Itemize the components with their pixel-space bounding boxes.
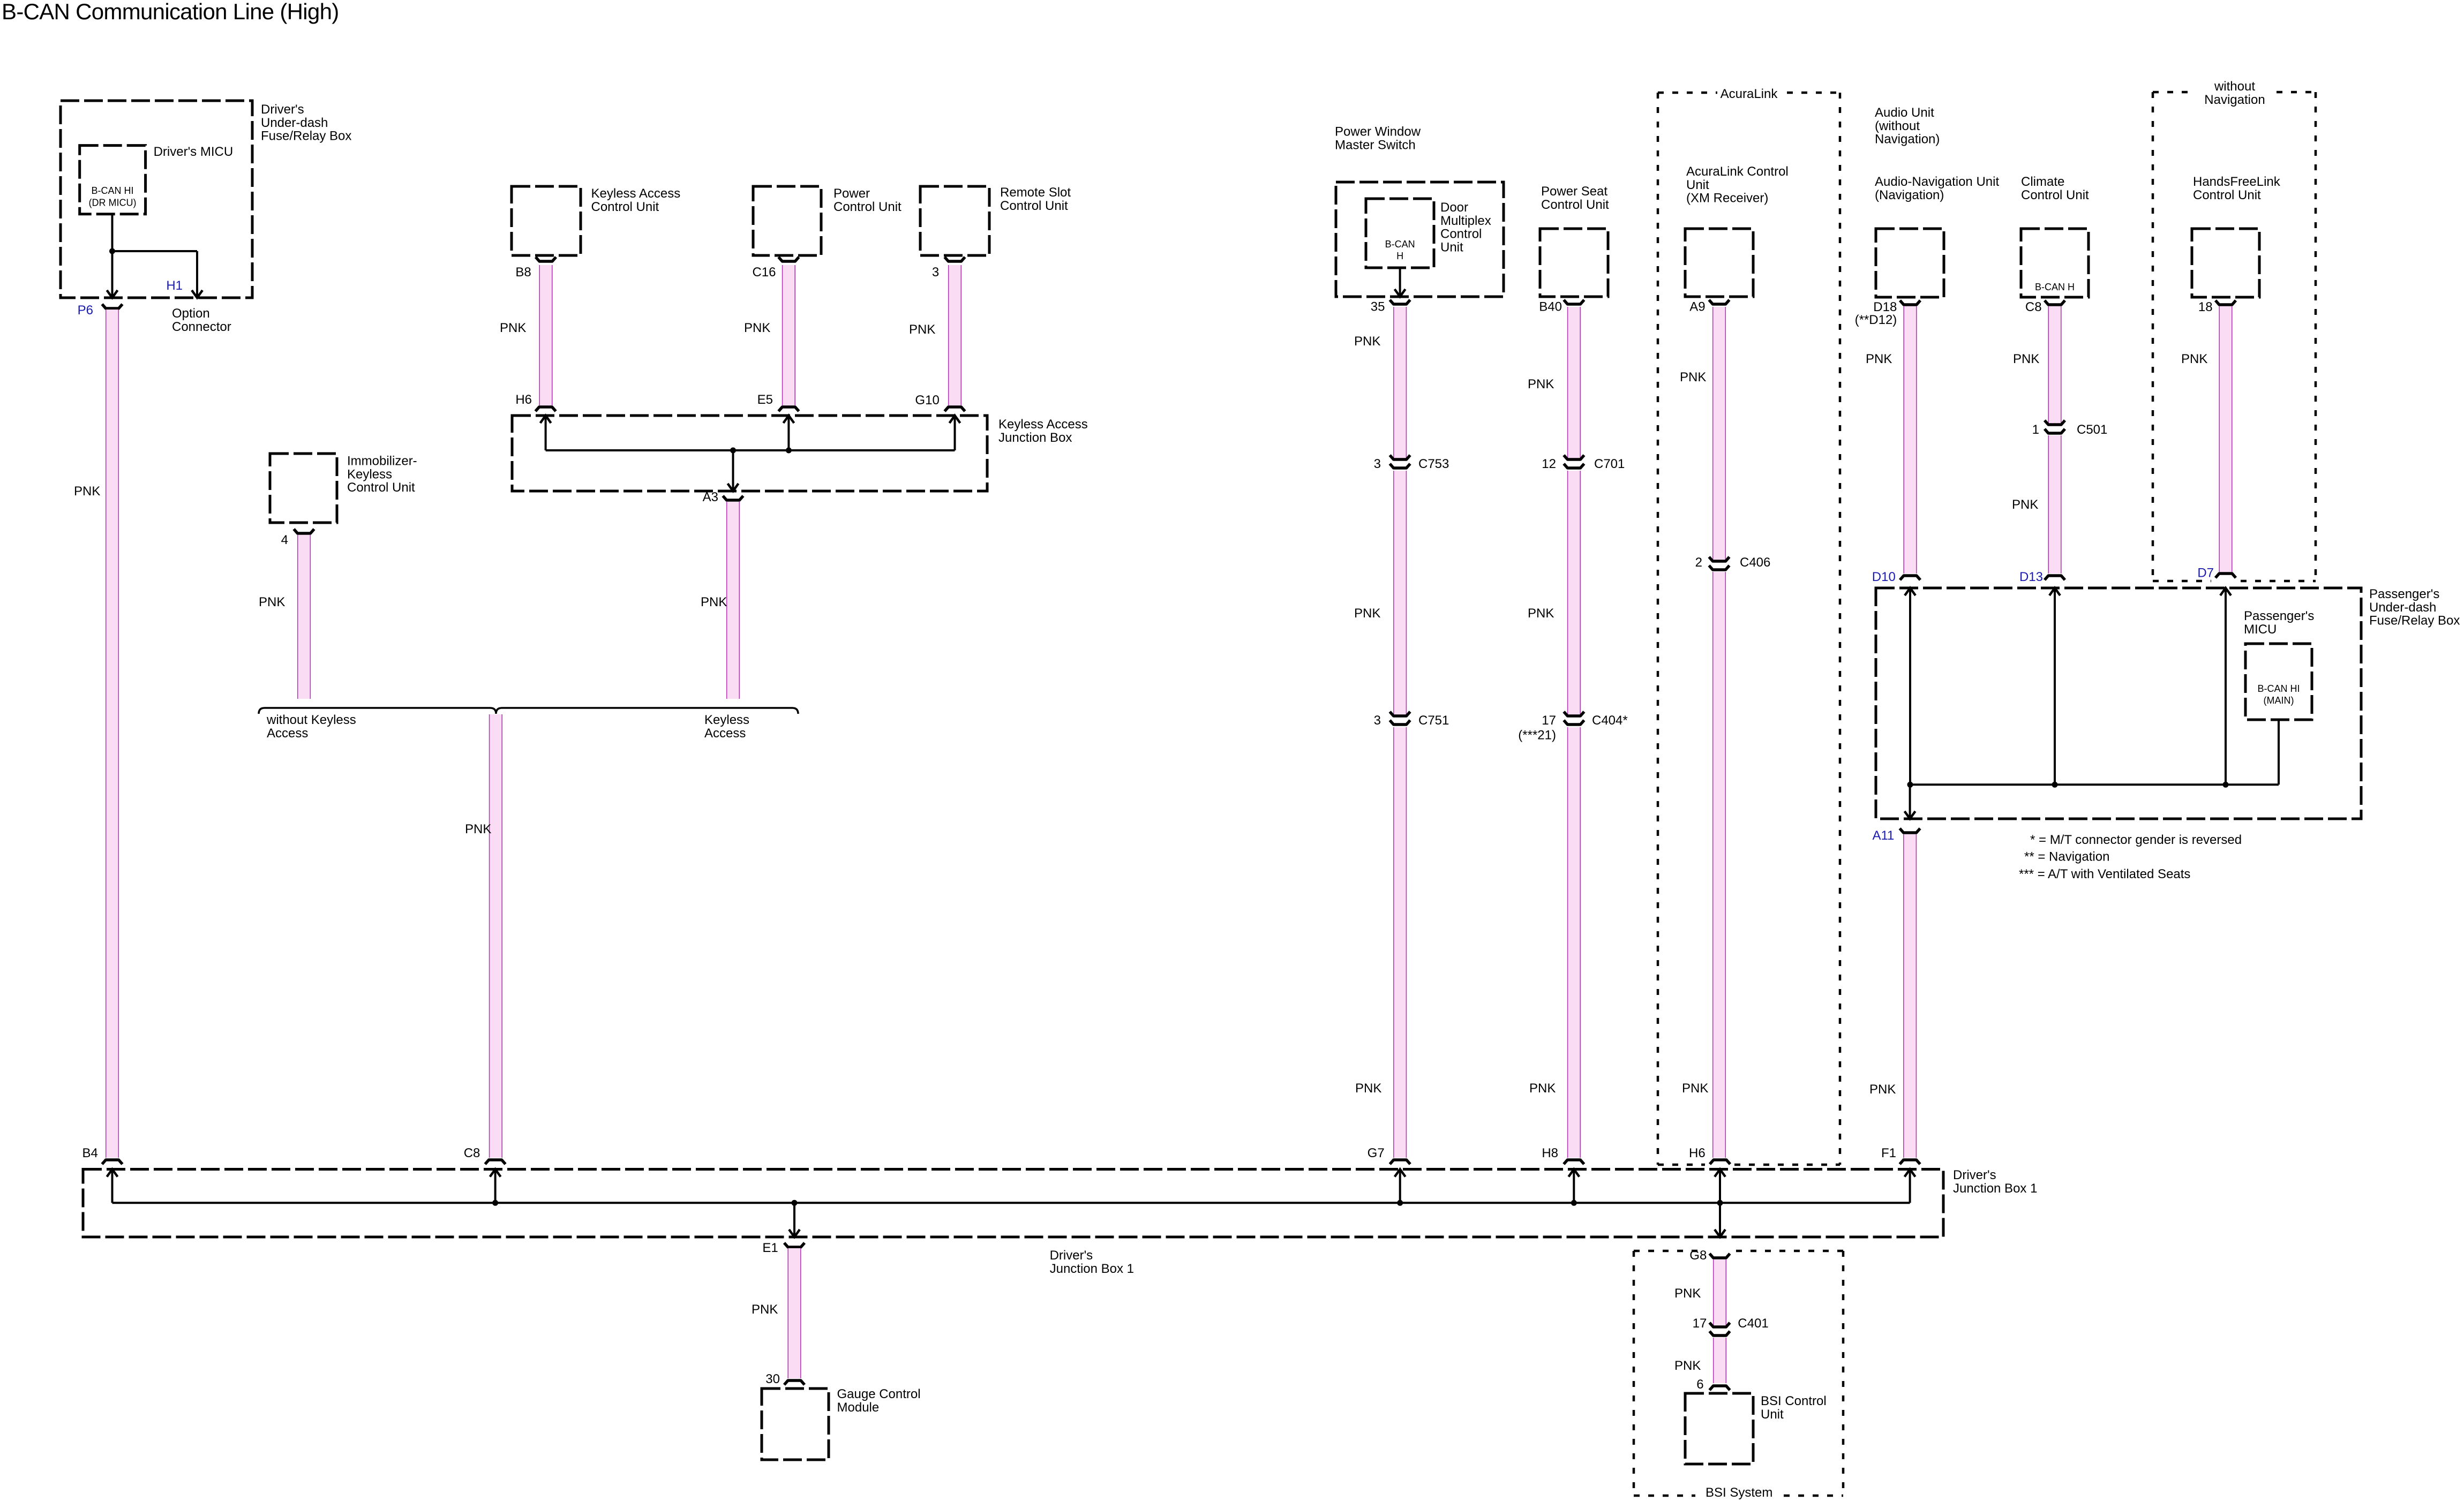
box Power Window Master Switch xyxy=(1336,182,1504,297)
svg-text:C16: C16 xyxy=(752,265,776,280)
label 2 C406 xyxy=(1695,555,1702,570)
wire PNK merged to C8 xyxy=(489,714,502,1158)
svg-text:PNK: PNK xyxy=(1528,377,1554,391)
label G8 xyxy=(1689,1248,1707,1263)
label D13 xyxy=(2019,570,2043,584)
wire PNK B8 to H6 xyxy=(539,265,553,405)
arrow into H6 keyless xyxy=(540,416,551,450)
label Power Window Master Switch xyxy=(1335,125,1421,153)
svg-text:PNK: PNK xyxy=(1354,334,1380,349)
box Keyless Access Control Unit xyxy=(512,186,581,255)
label 17 C404 xyxy=(1542,713,1556,728)
connector D18 xyxy=(1900,300,1920,305)
svg-text:A11: A11 xyxy=(1872,828,1894,843)
arrow into H1 xyxy=(192,251,202,298)
label PNK wire E1 xyxy=(752,1302,778,1317)
label B40 xyxy=(1539,300,1562,314)
junction node A3 bus xyxy=(730,448,736,454)
wire PNK D18 to D10 xyxy=(1904,306,1917,574)
label PNK wire 35 lower xyxy=(1355,1081,1381,1096)
label PNK wire 35 middle xyxy=(1354,606,1380,621)
svg-text:H8: H8 xyxy=(1542,1146,1558,1160)
label Immobilizer-Keyless Control Unit xyxy=(347,454,417,495)
label D10 xyxy=(1872,570,1896,584)
connector C8 junction box 1 xyxy=(485,1160,506,1164)
note asterisk legend xyxy=(2030,833,2242,847)
box Keyless Access Junction Box xyxy=(512,416,987,491)
label PNK wire 35 upper xyxy=(1354,334,1380,349)
label Gauge Control Module xyxy=(837,1387,921,1415)
connector G7 xyxy=(1390,1160,1410,1164)
junction node passenger D7 xyxy=(2223,782,2229,788)
svg-text:PNK: PNK xyxy=(74,484,100,499)
label PNK wire B8 xyxy=(500,321,526,335)
svg-text:3: 3 xyxy=(932,265,939,280)
svg-text:C501: C501 xyxy=(2077,422,2107,437)
label H6 keyless junction xyxy=(515,393,532,407)
label PNK wire B40 upper xyxy=(1528,377,1554,391)
svg-text:PNK: PNK xyxy=(259,595,285,609)
connector 3 Remote Slot xyxy=(945,257,965,261)
label Driver's Junction Box 1 right xyxy=(1953,1168,2037,1196)
label Climate Control Unit xyxy=(2021,175,2089,202)
label B4 xyxy=(82,1146,97,1160)
label BSI Control Unit xyxy=(1761,1394,1827,1422)
svg-text:(**D12): (**D12) xyxy=(1855,313,1897,327)
label C16 xyxy=(752,265,776,280)
label without Navigation region xyxy=(2204,79,2265,107)
svg-text:Remote SlotControl Unit: Remote SlotControl Unit xyxy=(1000,185,1071,213)
label Driver's Junction Box 1 bottom xyxy=(1050,1248,1134,1276)
connector 35 xyxy=(1390,300,1410,304)
label PNK wire G8 upper xyxy=(1674,1286,1701,1301)
box Driver's Under-dash Fuse/Relay Box xyxy=(61,101,252,298)
connector G10 xyxy=(945,407,965,411)
arrow into G10 xyxy=(950,416,960,450)
label C404* xyxy=(1592,713,1628,728)
box Passenger's MICU xyxy=(2245,644,2312,720)
svg-text:17: 17 xyxy=(1693,1316,1707,1331)
svg-text:A3: A3 xyxy=(703,490,718,504)
label Power Control Unit xyxy=(833,186,902,214)
wire PNK A11 to F1 xyxy=(1903,834,1917,1158)
svg-text:F1: F1 xyxy=(1881,1146,1896,1160)
svg-text:C406: C406 xyxy=(1740,555,1770,570)
label B-CAN HI (MAIN) xyxy=(2257,683,2300,706)
label C8 climate xyxy=(2025,300,2042,314)
box Power Seat Control Unit xyxy=(1540,229,1608,297)
svg-text:C8: C8 xyxy=(464,1146,480,1160)
svg-text:KeylessAccess: KeylessAccess xyxy=(704,713,749,741)
label B-CAN H door multiplex xyxy=(1385,239,1415,261)
svg-text:3: 3 xyxy=(1374,457,1381,471)
label Audio Unit (without Navigation) xyxy=(1875,105,1940,147)
note double asterisk xyxy=(2024,849,2109,864)
arrow out to A3 xyxy=(728,450,739,491)
connector D13 xyxy=(2045,576,2065,580)
connector C16 xyxy=(778,257,799,261)
wire PNK A3 to brace xyxy=(726,502,740,699)
connector 30 xyxy=(784,1380,805,1385)
brace merge without/with keyless xyxy=(259,708,798,714)
svg-text:PNK: PNK xyxy=(1866,352,1892,366)
svg-text:C401: C401 xyxy=(1738,1316,1768,1331)
label 3 C751 xyxy=(1374,713,1381,728)
svg-text:C8: C8 xyxy=(2025,300,2042,314)
svg-text:12: 12 xyxy=(1542,457,1556,471)
label C406 xyxy=(1740,555,1770,570)
wire PNK C8 to D13 xyxy=(2048,306,2062,574)
wire PNK P6 to B4 xyxy=(106,310,119,1158)
wire PNK 35 to G7 xyxy=(1393,307,1407,1158)
connector C501 xyxy=(2045,420,2065,433)
label C501 xyxy=(2077,422,2107,437)
svg-text:PNK: PNK xyxy=(752,1302,778,1317)
connector C401 xyxy=(1710,1323,1730,1336)
svg-text:PNK: PNK xyxy=(1674,1359,1701,1373)
svg-text:E1: E1 xyxy=(762,1241,778,1255)
svg-text:B-CAN H: B-CAN H xyxy=(2035,282,2075,292)
label P6 xyxy=(78,303,93,318)
label without Keyless Access xyxy=(266,713,356,741)
label C751 xyxy=(1418,713,1449,728)
label 3 C753 xyxy=(1374,457,1381,471)
svg-text:PNK: PNK xyxy=(2013,352,2039,366)
wire stub Passenger MICU xyxy=(2278,720,2280,784)
label (**D12) xyxy=(1855,313,1897,327)
junction node passenger D10 xyxy=(1907,782,1913,788)
connector C753 xyxy=(1390,455,1410,468)
bus wire passenger box xyxy=(1910,783,2279,786)
arrow door multiplex to 35 xyxy=(1395,268,1406,297)
label 4 Immobilizer xyxy=(281,533,288,547)
connector C701 xyxy=(1564,455,1584,468)
arrow into G7 xyxy=(1395,1170,1406,1203)
svg-text:PNK: PNK xyxy=(1674,1286,1701,1301)
box Driver's MICU xyxy=(80,146,146,214)
svg-text:35: 35 xyxy=(1371,300,1385,314)
junction node C8 bus xyxy=(492,1200,498,1206)
svg-text:17: 17 xyxy=(1542,713,1556,728)
wire PNK 3 to G10 xyxy=(948,265,961,405)
label B-CAN HI (DR MICU) xyxy=(89,185,137,208)
label E5 xyxy=(757,393,773,407)
svg-text:BSI System: BSI System xyxy=(1706,1485,1772,1500)
svg-text:D18: D18 xyxy=(1873,300,1897,314)
label Remote Slot Control Unit xyxy=(1000,185,1071,213)
svg-text:PNK: PNK xyxy=(1528,606,1554,621)
svg-text:PNK: PNK xyxy=(465,822,491,836)
label B-CAN H climate xyxy=(2035,282,2075,292)
title text xyxy=(2,0,339,24)
box Remote Slot Control Unit xyxy=(920,186,989,255)
connector A9 xyxy=(1709,300,1730,304)
svg-text:P6: P6 xyxy=(78,303,93,318)
label AcuraLink xyxy=(1721,87,1778,101)
label Option Connector xyxy=(172,306,231,334)
svg-text:(***21): (***21) xyxy=(1518,728,1556,742)
svg-text:D7: D7 xyxy=(2197,566,2214,580)
arrow into B4 xyxy=(107,1170,118,1203)
bus wire keyless junction box xyxy=(546,449,955,451)
junction node passenger D13 xyxy=(2052,782,2058,788)
svg-text:PNK: PNK xyxy=(500,321,526,335)
connector C404 xyxy=(1564,712,1584,725)
svg-text:G8: G8 xyxy=(1689,1248,1707,1263)
svg-text:18: 18 xyxy=(2198,300,2213,314)
label B8 xyxy=(515,265,531,280)
wire PNK E1 to 30 xyxy=(788,1248,801,1378)
label HandsFreeLink Control Unit xyxy=(2193,175,2281,202)
connector A11 xyxy=(1900,828,1920,833)
label Keyless Access Control Unit xyxy=(591,186,681,214)
svg-text:4: 4 xyxy=(281,533,288,547)
label D7 xyxy=(2197,566,2214,580)
label PNK wire climate lower xyxy=(2012,497,2038,512)
svg-text:PNK: PNK xyxy=(744,321,770,335)
label PNK wire B40 middle xyxy=(1528,606,1554,621)
svg-text:*** = A/T with Ventilated Seat: *** = A/T with Ventilated Seats xyxy=(2019,867,2190,881)
svg-text:3: 3 xyxy=(1374,713,1381,728)
junction node in Driver's MICU circuit xyxy=(109,248,115,254)
label Passenger's Under-dash Fuse/Relay Box xyxy=(2369,587,2460,628)
option region without Navigation xyxy=(2153,92,2316,581)
svg-text:PNK: PNK xyxy=(2012,497,2038,512)
label A3 xyxy=(703,490,718,504)
arrow into P6 xyxy=(107,251,118,298)
svg-text:D13: D13 xyxy=(2019,570,2043,584)
label 12 C701 xyxy=(1542,457,1556,471)
svg-text:PNK: PNK xyxy=(1869,1082,1896,1097)
label A11 xyxy=(1872,828,1894,843)
svg-text:B40: B40 xyxy=(1539,300,1562,314)
label Door Multiplex Control Unit xyxy=(1440,200,1491,254)
label PNK wire A9 lower xyxy=(1682,1081,1708,1096)
arrow out to G8 xyxy=(1715,1203,1725,1237)
label PNK wire Immobilizer xyxy=(259,595,285,609)
connector H8 xyxy=(1564,1160,1584,1164)
junction node E1 bus xyxy=(792,1200,798,1206)
junction node G7 bus xyxy=(1397,1200,1403,1206)
svg-text:G10: G10 xyxy=(915,393,939,408)
label PNK wire 18 xyxy=(2181,352,2207,366)
label PNK wire Remote Slot xyxy=(909,322,935,337)
label Power Seat Control Unit xyxy=(1541,184,1609,212)
svg-text:PNK: PNK xyxy=(1529,1081,1556,1096)
label C8 junction box 1 xyxy=(464,1146,480,1160)
svg-text:** = Navigation: ** = Navigation xyxy=(2024,849,2109,864)
connector G8 xyxy=(1710,1254,1730,1258)
wire PNK 4 to brace xyxy=(297,535,311,699)
svg-text:B8: B8 xyxy=(515,265,531,280)
label AcuraLink Control Unit xyxy=(1686,164,1789,206)
label F1 xyxy=(1881,1146,1896,1160)
label Keyless Access option xyxy=(704,713,749,741)
label PNK wire merged xyxy=(465,822,491,836)
label BSI System xyxy=(1706,1485,1772,1500)
label H8 xyxy=(1542,1146,1558,1160)
connector B8 xyxy=(536,257,556,261)
connector A3 xyxy=(723,496,743,500)
svg-text:30: 30 xyxy=(765,1372,780,1386)
junction node E5 bus xyxy=(786,448,792,454)
svg-text:Power WindowMaster Switch: Power WindowMaster Switch xyxy=(1335,125,1421,153)
box HandsFreeLink Control Unit xyxy=(2192,229,2259,297)
svg-text:PNK: PNK xyxy=(701,595,727,609)
svg-text:H6: H6 xyxy=(515,393,532,407)
label 30 xyxy=(765,1372,780,1386)
label Driver's MICU xyxy=(154,145,234,159)
svg-text:2: 2 xyxy=(1695,555,1702,570)
connector D10 xyxy=(1900,576,1920,580)
wire to H1 horizontal xyxy=(112,250,198,252)
connector 18 xyxy=(2215,300,2236,305)
svg-text:H1: H1 xyxy=(166,278,183,293)
arrow out to E1 xyxy=(789,1203,800,1237)
wire stub from B-CAN HI (DR MICU) xyxy=(111,214,114,251)
label PNK wire P6 xyxy=(74,484,100,499)
label 18 xyxy=(2198,300,2213,314)
label PNK wire G8 lower xyxy=(1674,1359,1701,1373)
box Driver's Junction Box 1 xyxy=(83,1170,1943,1238)
box Gauge Control Module xyxy=(762,1389,829,1460)
connector F1 xyxy=(1900,1160,1920,1164)
connector D7 xyxy=(2215,574,2236,578)
connector H6 junction box xyxy=(536,407,556,411)
label A9 xyxy=(1689,300,1705,314)
svg-text:E5: E5 xyxy=(757,393,773,407)
arrow into H6 xyxy=(1715,1170,1725,1203)
connector C406 xyxy=(1709,557,1730,570)
box Door Multiplex Control Unit xyxy=(1366,199,1434,268)
svg-text:PNK: PNK xyxy=(1355,1081,1381,1096)
label H6 junction box 1 xyxy=(1689,1146,1706,1160)
svg-text:PNK: PNK xyxy=(1680,370,1706,384)
arrow into E5 xyxy=(783,416,794,450)
connector P6 xyxy=(102,304,123,308)
junction node H6 bus xyxy=(1717,1200,1723,1206)
svg-text:G7: G7 xyxy=(1368,1146,1385,1160)
box BSI Control Unit xyxy=(1685,1393,1753,1464)
connector E5 xyxy=(778,407,799,411)
connector H6 junction box 1 xyxy=(1710,1160,1730,1164)
label PNK wire D18 xyxy=(1866,352,1892,366)
svg-text:A9: A9 xyxy=(1689,300,1705,314)
svg-text:PNK: PNK xyxy=(909,322,935,337)
label PNK wire C16 xyxy=(744,321,770,335)
svg-text:6: 6 xyxy=(1696,1377,1703,1392)
note triple asterisk xyxy=(2019,867,2190,881)
svg-text:D10: D10 xyxy=(1872,570,1896,584)
box Power Control Unit xyxy=(753,186,821,255)
connector B4 xyxy=(102,1160,123,1164)
junction node H8 bus xyxy=(1571,1200,1577,1206)
connector C751 xyxy=(1390,712,1410,725)
svg-text:1: 1 xyxy=(2032,422,2039,437)
label C401 xyxy=(1738,1316,1768,1331)
connector C8 climate xyxy=(2045,300,2065,305)
label 1 C501 xyxy=(2032,422,2039,437)
box Climate Control Unit xyxy=(2021,229,2089,297)
label Driver's Under-dash Fuse/Relay Box xyxy=(261,102,351,144)
label H1 xyxy=(166,278,183,293)
connector E1 xyxy=(784,1243,805,1247)
connector 4 Immobilizer xyxy=(294,529,314,533)
svg-text:H6: H6 xyxy=(1689,1146,1706,1160)
box Audio-Navigation Unit xyxy=(1876,229,1944,297)
connector 6 xyxy=(1710,1386,1730,1390)
arrow into passenger box D10 xyxy=(1905,588,1915,784)
wire PNK A9 to H6 xyxy=(1712,307,1726,1158)
arrow into passenger box D13 xyxy=(2049,588,2060,784)
svg-text:PNK: PNK xyxy=(1354,606,1380,621)
svg-text:C753: C753 xyxy=(1418,457,1449,471)
svg-text:Power SeatControl Unit: Power SeatControl Unit xyxy=(1541,184,1609,212)
svg-text:C751: C751 xyxy=(1418,713,1449,728)
svg-text:PNK: PNK xyxy=(2181,352,2207,366)
box AcuraLink Control Unit xyxy=(1685,229,1753,297)
label 35 xyxy=(1371,300,1385,314)
arrow into F1 xyxy=(1905,1170,1915,1203)
label PNK wire A9 upper xyxy=(1680,370,1706,384)
label G10 xyxy=(915,393,939,408)
label C753 xyxy=(1418,457,1449,471)
label Passenger's MICU xyxy=(2244,609,2314,637)
arrow out to A11 xyxy=(1905,784,1915,819)
label PNK wire B40 lower xyxy=(1529,1081,1556,1096)
label 17 C401 xyxy=(1693,1316,1707,1331)
svg-text:C701: C701 xyxy=(1594,457,1625,471)
arrow into H8 xyxy=(1568,1170,1579,1203)
label (***21) xyxy=(1518,728,1556,742)
option region BSI System xyxy=(1634,1251,1843,1496)
box Immobilizer-Keyless Control Unit xyxy=(270,454,337,523)
svg-text:B4: B4 xyxy=(82,1146,97,1160)
svg-text:* = M/T connector gender is re: * = M/T connector gender is reversed xyxy=(2030,833,2242,847)
label D18 xyxy=(1873,300,1897,314)
label 6 BSI xyxy=(1696,1377,1703,1392)
wire PNK G8 to 6 xyxy=(1713,1259,1726,1383)
wire PNK B40 to H8 xyxy=(1567,307,1581,1158)
wire PNK 18 to D7 xyxy=(2219,306,2233,572)
label PNK wire A3 xyxy=(701,595,727,609)
label Keyless Access Junction Box xyxy=(998,417,1088,445)
label PNK wire A11 xyxy=(1869,1082,1896,1097)
box Passenger's Under-dash Fuse/Relay Box xyxy=(1876,588,2361,819)
label PNK wire climate upper xyxy=(2013,352,2039,366)
label G7 xyxy=(1368,1146,1385,1160)
svg-text:Driver's MICU: Driver's MICU xyxy=(154,145,234,159)
svg-text:B-CAN Communication Line (High: B-CAN Communication Line (High) xyxy=(2,0,339,24)
label Audio-Navigation Unit (Navigation) xyxy=(1875,175,1999,202)
label E1 xyxy=(762,1241,778,1255)
svg-text:PNK: PNK xyxy=(1682,1081,1708,1096)
connector B40 xyxy=(1564,300,1584,304)
option region AcuraLink xyxy=(1658,93,1840,1165)
label 3 Remote Slot xyxy=(932,265,939,280)
arrow into C8 xyxy=(490,1170,501,1203)
svg-text:AcuraLink: AcuraLink xyxy=(1721,87,1778,101)
bus wire junction box 1 xyxy=(112,1202,1910,1204)
arrow into passenger box D7 xyxy=(2220,588,2231,784)
label C701 xyxy=(1594,457,1625,471)
svg-text:C404*: C404* xyxy=(1592,713,1628,728)
wire PNK C16 to E5 xyxy=(782,265,795,405)
